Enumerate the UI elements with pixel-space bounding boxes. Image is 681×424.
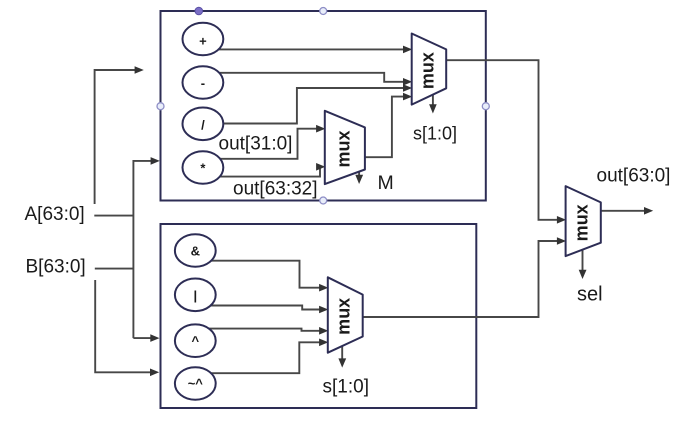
svg-text:^: ^ — [192, 334, 200, 349]
svg-text:M: M — [378, 172, 394, 194]
svg-text:&: & — [191, 244, 200, 259]
svg-text:out[63:0]: out[63:0] — [597, 166, 671, 187]
svg-text:-: - — [201, 76, 205, 91]
svg-text:+: + — [199, 34, 207, 49]
svg-text:out[31:0]: out[31:0] — [219, 133, 293, 154]
svg-text:s[1:0]: s[1:0] — [413, 124, 457, 144]
svg-text:|: | — [193, 288, 197, 303]
svg-text:mux: mux — [417, 52, 437, 89]
svg-text:sel: sel — [577, 284, 603, 306]
svg-text:s[1:0]: s[1:0] — [323, 377, 369, 398]
svg-text:A[63:0]: A[63:0] — [25, 204, 85, 225]
svg-text:mux: mux — [333, 130, 353, 167]
svg-text:mux: mux — [334, 298, 354, 335]
svg-text:~^: ~^ — [188, 376, 204, 391]
svg-text:/: / — [201, 118, 205, 133]
svg-text:mux: mux — [572, 204, 592, 241]
svg-text:B[63:0]: B[63:0] — [26, 256, 86, 277]
svg-text:out[63:32]: out[63:32] — [233, 179, 318, 200]
